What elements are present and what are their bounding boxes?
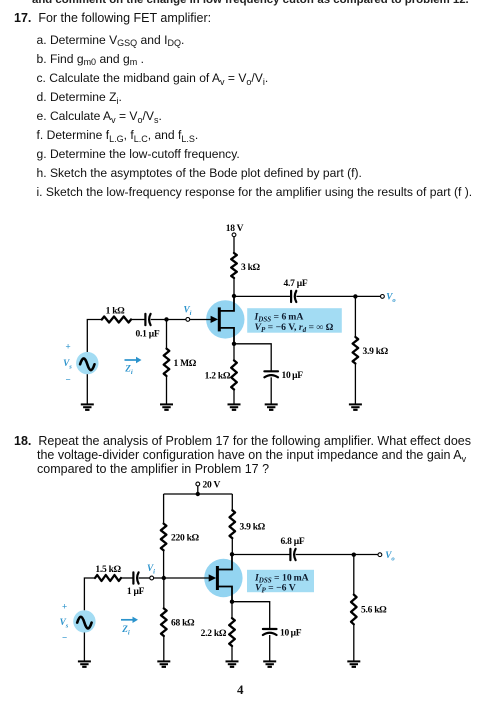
- capacitor 4.7uF: [290, 291, 292, 302]
- svg-text:VP = −6 V: VP = −6 V: [255, 583, 296, 595]
- svg-text:+: +: [62, 602, 67, 612]
- cut-off text line at top: [32, 0, 469, 7]
- source Vs circuit2: [73, 610, 95, 632]
- node rail circuit2: [196, 492, 200, 496]
- wire source node to bypass cap circuit2: [232, 602, 270, 629]
- ground Rs circuit2: [226, 660, 239, 662]
- wire Rs to ground: [233, 390, 235, 405]
- ground Vs circuit2: [78, 660, 91, 662]
- resistor 3.9 kOhm load circuit1: [353, 337, 359, 364]
- wire rail to R3.9k circuit2: [231, 494, 233, 510]
- Zi arrow circuit1: [125, 359, 138, 361]
- svg-text:4.7 μF: 4.7 μF: [284, 279, 308, 289]
- wire R68k to ground: [163, 636, 165, 661]
- item h: [37, 166, 362, 180]
- svg-text:Zi: Zi: [124, 364, 133, 377]
- resistor 3.9 kOhm circuit2: [230, 510, 236, 538]
- wire Vs top to input corner circuit2: [84, 578, 95, 610]
- svg-text:20 V: 20 V: [203, 481, 221, 491]
- node output circuit1: [353, 294, 357, 298]
- svg-text:Vi: Vi: [184, 305, 192, 318]
- terminal Vi circuit1: [186, 318, 190, 322]
- svg-text:1 μF: 1 μF: [127, 587, 145, 597]
- svg-text:6.8 μF: 6.8 μF: [281, 537, 305, 547]
- wire output node down to RL circuit2: [353, 555, 355, 595]
- svg-text:Vo: Vo: [385, 550, 395, 563]
- resistor 1.2 kOhm: [231, 360, 237, 389]
- wire drain to coupling cap circuit2: [232, 554, 290, 556]
- ground R68k circuit2: [157, 660, 170, 662]
- wire cap to gate junction: [151, 319, 211, 321]
- JFET Q1: [206, 300, 244, 338]
- JFET Q2: [204, 559, 242, 597]
- wire cap to output node: [296, 295, 380, 297]
- wire cap to output node circuit2: [296, 554, 378, 556]
- svg-text:−: −: [65, 375, 71, 385]
- wire junction down to R68k: [163, 578, 165, 608]
- svg-text:68 kΩ: 68 kΩ: [171, 619, 195, 629]
- svg-text:1 kΩ: 1 kΩ: [106, 307, 126, 317]
- wire output node down to RL: [354, 296, 356, 337]
- wire R1.5k to cap 1uF: [121, 577, 133, 579]
- supply terminal 18V circuit1: [232, 233, 236, 237]
- svg-text:Vs: Vs: [63, 358, 72, 371]
- node gate junction circuit2: [162, 576, 166, 580]
- wire source node to Rs circuit2: [231, 602, 233, 618]
- Zi arrow circuit2: [121, 619, 134, 621]
- svg-text:220 kΩ: 220 kΩ: [171, 534, 200, 544]
- resistor 68 kOhm: [161, 608, 167, 636]
- wire R220k to gate junction: [163, 550, 165, 577]
- problem 17 heading: [14, 11, 211, 25]
- svg-text:2.2 kΩ: 2.2 kΩ: [201, 629, 227, 639]
- item e: [37, 109, 162, 123]
- wire bypass cap to ground circuit2: [269, 635, 271, 661]
- wire rail to R220k: [163, 494, 165, 524]
- wire Vs bottom to ground: [86, 374, 88, 404]
- ground RL circuit1: [349, 403, 362, 405]
- svg-text:−: −: [62, 633, 68, 643]
- item b: [37, 52, 144, 66]
- ground bypass circuit2: [263, 660, 276, 662]
- terminal Vi circuit2: [150, 576, 154, 580]
- svg-text:Zi: Zi: [121, 624, 130, 637]
- item i: [37, 185, 473, 199]
- capacitor 6.8uF: [289, 549, 291, 560]
- svg-text:Vs: Vs: [60, 617, 69, 630]
- node drain circuit2: [230, 552, 234, 556]
- svg-text:VP = −6 V, rd = ∞ Ω: VP = −6 V, rd = ∞ Ω: [255, 322, 334, 334]
- wire RL to ground circuit2: [353, 624, 355, 661]
- resistor 1 kOhm: [102, 317, 131, 323]
- info box circuit1: [247, 308, 342, 333]
- wire drain to coupling cap: [234, 295, 291, 297]
- node output circuit2: [352, 553, 356, 557]
- supply terminal 20V circuit2: [196, 482, 200, 486]
- svg-text:0.1 μF: 0.1 μF: [136, 330, 160, 340]
- wire Vs top to input corner: [87, 320, 102, 353]
- wire VDD to rail circuit2: [197, 486, 199, 494]
- wire Vs bottom to ground circuit2: [83, 633, 85, 662]
- capacitor 10uF circuit2: [263, 628, 277, 630]
- wire bypass cap to ground: [270, 377, 272, 404]
- ground bypass circuit1: [265, 403, 278, 405]
- ground Vs circuit1: [81, 403, 94, 405]
- resistor 220 kOhm: [161, 524, 167, 551]
- resistor 1 MOhm: [164, 349, 170, 376]
- svg-text:+: +: [65, 342, 70, 352]
- capacitor 1uF: [132, 572, 134, 583]
- capacitor 10uF circuit1: [264, 370, 278, 372]
- wire Rs to ground circuit2: [231, 646, 233, 661]
- wire R3.9k to drain node circuit2: [231, 538, 233, 554]
- terminal Vo circuit1: [381, 295, 385, 299]
- item g: [37, 147, 240, 161]
- svg-text:3.9 kΩ: 3.9 kΩ: [240, 523, 266, 533]
- item a: [37, 33, 185, 47]
- wire R1k to cap 0.1uF: [131, 319, 145, 321]
- svg-text:1 MΩ: 1 MΩ: [174, 359, 197, 369]
- node drain circuit1: [232, 294, 236, 298]
- source node circuit1: [232, 342, 236, 346]
- resistor 1.5 kOhm: [95, 575, 121, 581]
- capacitor 0.1uF: [144, 314, 146, 325]
- svg-text:5.6 kΩ: 5.6 kΩ: [361, 606, 387, 616]
- svg-text:1.5 kΩ: 1.5 kΩ: [95, 565, 121, 575]
- wire RL to ground: [354, 364, 356, 405]
- ground RL circuit2: [347, 660, 360, 662]
- ground Rs circuit1: [228, 403, 241, 405]
- top rail circuit2: [164, 493, 233, 495]
- svg-text:Vo: Vo: [386, 291, 396, 304]
- svg-text:3 kΩ: 3 kΩ: [241, 263, 261, 273]
- problem 18 heading: [14, 434, 471, 448]
- wire Rg to ground: [166, 376, 168, 404]
- info box circuit2: [247, 570, 314, 592]
- svg-text:3.9 kΩ: 3.9 kΩ: [363, 347, 389, 357]
- wire VDD to R 3k: [233, 237, 235, 253]
- resistor 2.2 kOhm: [229, 618, 235, 646]
- wire cap to Vi terminal circuit2: [139, 577, 150, 579]
- item c: [37, 71, 269, 85]
- wire Vi to gate circuit2: [154, 577, 209, 579]
- node gate junction circuit1: [164, 317, 168, 321]
- terminal Vo circuit2: [378, 553, 382, 557]
- wire source node to bypass cap: [234, 344, 271, 372]
- svg-text:1.2 kΩ: 1.2 kΩ: [205, 372, 231, 382]
- resistor 3 kOhm: [231, 253, 237, 278]
- page number: [237, 683, 244, 697]
- item d: [37, 90, 122, 104]
- svg-text:10 μF: 10 μF: [280, 629, 302, 639]
- wire source node to Rs: [233, 344, 235, 361]
- ground Rg circuit1: [160, 403, 173, 405]
- svg-text:18 V: 18 V: [226, 224, 244, 234]
- source Vs circuit1: [76, 352, 98, 374]
- wire R3k to drain node: [233, 278, 235, 296]
- svg-text:10 μF: 10 μF: [282, 371, 304, 381]
- svg-text:Vi: Vi: [147, 563, 155, 576]
- wire junction down to Rg: [166, 319, 168, 348]
- resistor 5.6 kOhm: [351, 595, 357, 625]
- item f: [37, 128, 199, 142]
- source node circuit2: [230, 600, 234, 604]
